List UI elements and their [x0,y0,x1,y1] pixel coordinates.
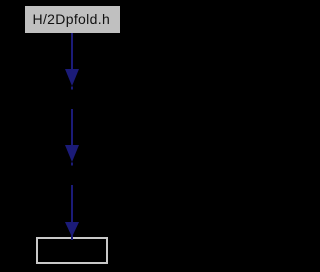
wire edge 3 arrowhead [65,222,79,237]
wire edge 1 shaft [71,33,73,70]
node box H/2Dpfold.h [25,6,120,33]
wire edge 1 arrowhead [65,69,79,86]
node box empty (bottom) [36,237,108,264]
wire edge 2 arrowhead [65,145,79,162]
wire edge 3 shaft [71,185,73,222]
wire edges svg [0,0,144,272]
node label H/2Dpfold.h [33,10,111,28]
wire edge 2 shaft [71,109,73,146]
